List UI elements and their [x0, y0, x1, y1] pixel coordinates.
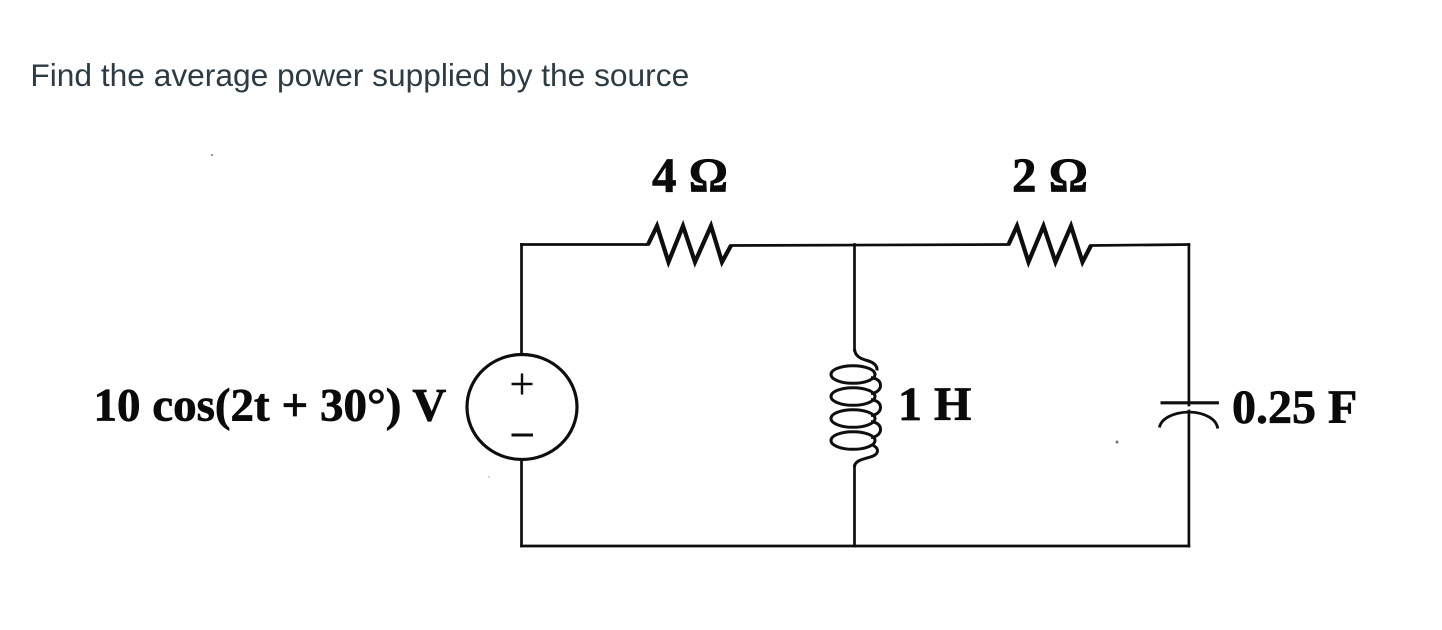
svg-text:1 H: 1 H	[898, 378, 971, 431]
svg-text:0.25 F: 0.25 F	[1232, 381, 1357, 434]
svg-text:2 Ω: 2 Ω	[1012, 148, 1088, 203]
svg-text:10 cos(2t + 30°) V: 10 cos(2t + 30°) V	[94, 380, 447, 432]
svg-text:4 Ω: 4 Ω	[652, 148, 728, 203]
